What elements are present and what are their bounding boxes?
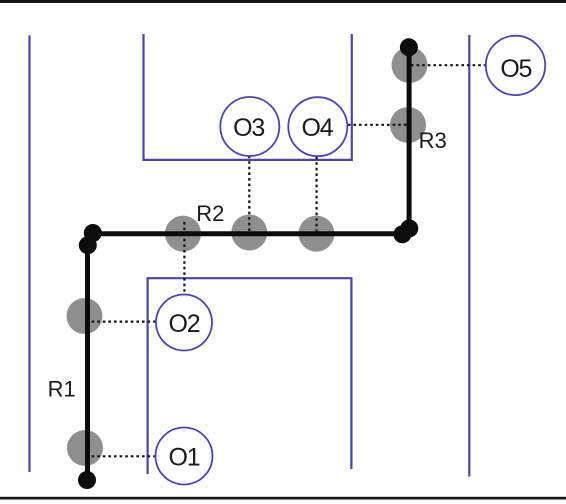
- svg-text:R2: R2: [196, 201, 224, 226]
- svg-text:R3: R3: [419, 128, 447, 153]
- svg-text:O2: O2: [169, 310, 200, 338]
- svg-text:O5: O5: [500, 55, 531, 83]
- svg-text:R1: R1: [48, 376, 76, 401]
- svg-text:O3: O3: [233, 114, 264, 142]
- svg-text:O1: O1: [169, 443, 200, 471]
- svg-text:O4: O4: [302, 114, 334, 142]
